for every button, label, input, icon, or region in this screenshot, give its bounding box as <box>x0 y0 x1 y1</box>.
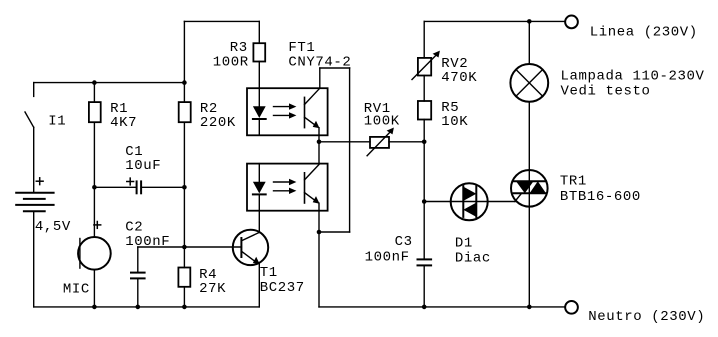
svg-text:CNY74-2: CNY74-2 <box>288 55 351 71</box>
svg-text:4K7: 4K7 <box>110 115 137 131</box>
svg-text:100nF: 100nF <box>125 234 170 250</box>
svg-text:I1: I1 <box>48 113 66 129</box>
svg-text:FT1: FT1 <box>288 40 315 56</box>
svg-text:C2: C2 <box>125 220 143 236</box>
svg-text:Lampada 110-230V: Lampada 110-230V <box>561 69 705 85</box>
svg-text:BTB16-600: BTB16-600 <box>560 189 641 205</box>
svg-text:10K: 10K <box>441 114 468 130</box>
svg-text:100R: 100R <box>213 55 249 71</box>
svg-text:Vedi testo: Vedi testo <box>561 83 651 99</box>
svg-text:100nF: 100nF <box>365 249 410 265</box>
svg-text:T1: T1 <box>260 265 278 281</box>
svg-text:MIC: MIC <box>63 281 90 297</box>
svg-text:Diac: Diac <box>455 251 491 267</box>
svg-text:R3: R3 <box>230 40 248 56</box>
svg-text:Linea (230V): Linea (230V) <box>590 25 698 41</box>
svg-text:470K: 470K <box>441 70 477 86</box>
svg-text:10uF: 10uF <box>125 158 161 174</box>
svg-text:Neutro (230V): Neutro (230V) <box>588 309 705 325</box>
svg-text:D1: D1 <box>455 236 473 252</box>
svg-text:BC237: BC237 <box>260 280 305 296</box>
svg-text:27K: 27K <box>199 281 226 297</box>
svg-text:4,5V: 4,5V <box>35 219 71 235</box>
svg-text:C3: C3 <box>395 234 413 250</box>
svg-text:220K: 220K <box>200 115 236 131</box>
svg-text:TR1: TR1 <box>560 174 587 190</box>
svg-text:100K: 100K <box>364 114 400 130</box>
